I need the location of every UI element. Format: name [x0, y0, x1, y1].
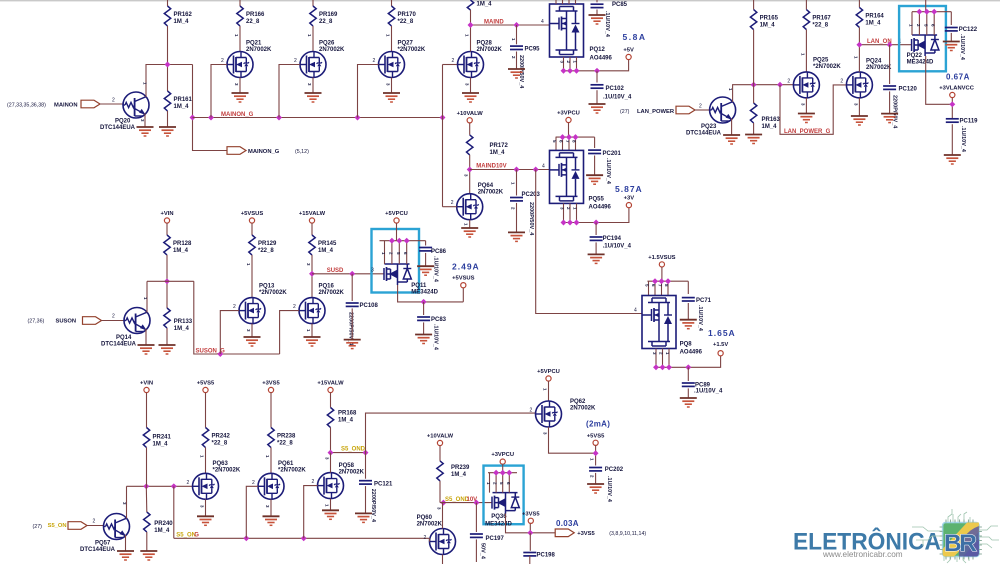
svg-text:PR239: PR239	[451, 465, 470, 471]
wire to MAINON_G port	[193, 65, 228, 151]
ground below PC201	[586, 175, 603, 184]
svg-text:1M_4: 1M_4	[174, 19, 190, 25]
junction PC203 on MAIND10V	[514, 167, 520, 173]
svg-text:22_8: 22_8	[246, 19, 260, 25]
wire +5VPCU to PQ11 top bar	[380, 223, 426, 264]
svg-text:(27): (27)	[620, 109, 630, 115]
wire +15VALW to PR168	[330, 393, 332, 408]
transistor PQ63	[193, 473, 219, 499]
resistor PR162	[164, 6, 170, 26]
svg-text:2200P/50V_4: 2200P/50V_4	[892, 95, 898, 129]
wire PC198 down	[529, 556, 531, 564]
svg-text:SUSON: SUSON	[56, 319, 77, 325]
wire PQ55 source bus to +3V	[564, 208, 629, 223]
junction PC121 on S5_OND	[363, 450, 369, 456]
wire PC86 to ground	[425, 253, 427, 266]
svg-text:PQ57: PQ57	[95, 541, 111, 547]
wire S5_ONG to PQ61 gate	[246, 486, 258, 538]
svg-text:1M_4: 1M_4	[762, 124, 778, 130]
transistor PQ24	[846, 72, 872, 98]
junction	[574, 220, 580, 226]
capacitor PC202 plates	[589, 468, 602, 471]
wire +VIN to PR241	[146, 393, 148, 428]
highlight box around PQ11	[372, 229, 420, 293]
wire bus to PC194	[595, 223, 597, 236]
svg-text:2: 2	[187, 480, 190, 486]
svg-text:2N7002K: 2N7002K	[339, 470, 365, 476]
net LAN_POWER_G	[780, 85, 847, 135]
resistor PR129	[249, 235, 255, 255]
wire PR168 to S5_OND	[330, 428, 332, 453]
output port +3VS5	[555, 529, 574, 537]
resistor PR163	[750, 103, 756, 123]
svg-text:.1U/10V_4: .1U/10V_4	[606, 476, 612, 503]
wire PR240 to ground	[146, 532, 148, 551]
svg-text:ME3424D: ME3424D	[907, 60, 934, 66]
svg-text:1M_4: 1M_4	[318, 248, 334, 254]
wire S5_OND to PQ58 drain	[330, 453, 332, 473]
ground below PC71	[680, 320, 697, 329]
junction PR128/PR133	[164, 278, 170, 284]
ground below PC121	[355, 513, 372, 522]
svg-text:PQ11: PQ11	[411, 283, 427, 289]
wire PQ24 drain to LAN_ON	[858, 45, 860, 72]
transistor PQ14	[124, 308, 150, 334]
highlight box around PQ22	[899, 6, 946, 71]
svg-text:2: 2	[840, 78, 843, 84]
wire PC201 to ground	[594, 156, 596, 176]
svg-text:PC201: PC201	[603, 151, 622, 157]
svg-text:PQ12: PQ12	[590, 47, 606, 53]
ground below PC102	[589, 104, 606, 113]
svg-text:AO4496: AO4496	[589, 205, 612, 211]
wire top bar to PC86	[425, 241, 427, 246]
svg-text:PR242: PR242	[212, 434, 231, 440]
svg-text:*2N7002K: *2N7002K	[259, 290, 287, 296]
svg-text:PR162: PR162	[174, 12, 193, 18]
wire PC197 down	[475, 539, 477, 562]
svg-text:+3VPCU: +3VPCU	[491, 452, 514, 458]
junction	[404, 238, 410, 244]
wire PQ61 source to ground	[270, 499, 272, 516]
junction	[567, 68, 573, 74]
svg-text:2200P/50V_4: 2200P/50V_4	[528, 202, 534, 236]
p-mosfet PQ11 ME3424D	[384, 264, 411, 285]
wire PC71 to ground	[687, 303, 689, 320]
power mosfet PQ12 AO4496	[550, 4, 584, 57]
svg-text:PC108: PC108	[360, 303, 379, 309]
junction	[931, 9, 937, 15]
junction	[567, 220, 573, 226]
junction	[652, 278, 658, 284]
wire gate PQ27	[358, 65, 379, 118]
transistor PQ16	[299, 298, 325, 324]
resistor PR239	[437, 461, 443, 481]
svg-text:MAIND: MAIND	[484, 20, 504, 26]
transistor PQ23	[710, 97, 736, 123]
wire MAINON to PQ20 base	[100, 103, 123, 105]
svg-text:PC83: PC83	[431, 317, 447, 323]
svg-text:PR128: PR128	[173, 241, 192, 247]
svg-text:2N7002K: 2N7002K	[478, 190, 504, 196]
ground below PQ27	[383, 93, 400, 102]
resistor PR170	[388, 6, 394, 26]
svg-text:PC95: PC95	[525, 47, 541, 53]
wire PQ26 source to ground	[312, 78, 314, 94]
junction PQ13 gate on SUSON_G	[217, 351, 223, 357]
svg-text:PR168: PR168	[338, 411, 357, 417]
wire PR163 to ground	[753, 123, 755, 135]
junction PQ26 gate on MAINON_G	[276, 115, 282, 121]
wire PQ16 source to ground	[311, 324, 313, 337]
svg-text:PQ13: PQ13	[259, 284, 275, 290]
svg-text:PQ62: PQ62	[570, 399, 586, 405]
svg-text:2.49A: 2.49A	[452, 262, 480, 272]
ground at PQ23 emitter	[723, 135, 740, 144]
wire PQ11 drain to +5VSUS bus	[398, 285, 464, 302]
net S5_ONG rail	[174, 537, 429, 539]
wire top stub PR165	[753, 0, 755, 10]
svg-text:PC85: PC85	[612, 2, 628, 8]
svg-text:PQ8: PQ8	[680, 342, 693, 348]
wire PR129 to PQ13 drain	[251, 255, 253, 298]
wire top stub PR167	[805, 0, 807, 10]
svg-text:+5VSUS: +5VSUS	[241, 211, 264, 217]
svg-text:ME3424D: ME3424D	[411, 290, 438, 296]
svg-text:+3VPCU: +3VPCU	[557, 111, 580, 117]
pins bottom PQ55	[564, 203, 577, 222]
svg-text:22_8: 22_8	[319, 19, 333, 25]
wire PR161 to ground	[167, 111, 169, 127]
svg-text:+1.5VSUS: +1.5VSUS	[648, 255, 675, 261]
junction PR239/PQ60 drain	[440, 500, 446, 506]
svg-text:AO4496: AO4496	[680, 350, 703, 356]
wire gate PQ26	[279, 65, 300, 118]
ground below PR161	[159, 127, 176, 136]
junction PQ28 drain MAIND	[468, 22, 474, 28]
svg-text:.1U/10V_4: .1U/10V_4	[603, 244, 632, 250]
svg-text:+1.5V: +1.5V	[713, 342, 728, 348]
svg-text:+3VS5: +3VS5	[522, 511, 540, 517]
junction	[924, 9, 930, 15]
wire PQ57 collector up	[126, 486, 128, 518]
transistor PQ26	[300, 52, 326, 78]
wire PQ12 source bus to +5V	[564, 60, 629, 71]
ground below PC108	[344, 340, 361, 349]
net SUSD	[312, 273, 385, 275]
svg-text:PQ16: PQ16	[319, 284, 335, 290]
input port MAINON	[81, 100, 100, 108]
svg-text:1M_4: 1M_4	[153, 442, 169, 448]
svg-text:+15VALW: +15VALW	[317, 381, 344, 387]
capacitor PC122 plates	[945, 28, 958, 31]
svg-text:2: 2	[233, 304, 236, 310]
svg-text:+3VLANVCC: +3VLANVCC	[939, 85, 974, 91]
wire cut resistor to MAIND	[470, 10, 472, 25]
wire PQ14 collector node	[147, 280, 194, 282]
ground below PQ25	[798, 114, 815, 123]
junction	[561, 68, 567, 74]
svg-text:+3V: +3V	[624, 196, 635, 202]
logo ELETRONICA BR	[793, 509, 999, 563]
wire +3VS5 to PR238	[270, 393, 272, 428]
svg-text:PR129: PR129	[258, 241, 277, 247]
transistor PQ21	[227, 52, 253, 78]
junction PR241/PR240	[143, 483, 149, 489]
wire S5_OND to PC121	[365, 453, 367, 479]
svg-text:DTC144EUA: DTC144EUA	[100, 125, 136, 131]
junction PR164/PQ24/LAN_ON	[856, 42, 862, 48]
resistor PR242	[202, 428, 208, 448]
junction PQ8 gate branch	[533, 167, 539, 173]
wire top bar to PC122	[950, 12, 952, 25]
wire SUSD to PC108	[351, 274, 353, 301]
junction MAINON_G rail	[190, 115, 196, 121]
ground below PQ28	[462, 93, 479, 102]
svg-text:+VIN: +VIN	[160, 211, 173, 217]
svg-text:*2N7002K: *2N7002K	[213, 468, 241, 474]
svg-text:PQ28: PQ28	[477, 41, 493, 47]
svg-text:+5V: +5V	[623, 48, 634, 54]
wire PR133 to ground	[166, 328, 168, 345]
svg-text:2: 2	[93, 519, 96, 525]
svg-text:PQ55: PQ55	[589, 197, 605, 203]
wire top stub PR166	[239, 0, 241, 6]
svg-text:S5_OND: S5_OND	[341, 447, 366, 453]
ground below PQ61	[263, 516, 280, 525]
wire PR239 to S5_OND10V	[439, 481, 441, 503]
wire LAN_ON to PC120	[889, 45, 891, 84]
pins bottom PQ8	[656, 349, 669, 368]
svg-text:2N7002K: 2N7002K	[246, 47, 272, 53]
ground below PR133	[159, 345, 176, 354]
wire PQ14 collector up	[146, 281, 148, 312]
svg-text:+5VSUS: +5VSUS	[452, 276, 475, 282]
junction PQ58 gate on S5_ONG	[301, 535, 307, 541]
resistor PR172	[467, 135, 473, 155]
wire PQ62 source to +5VS5	[549, 427, 596, 453]
svg-text:PQ25: PQ25	[813, 58, 829, 64]
svg-text:PR238: PR238	[277, 434, 296, 440]
wire +5VPCU to PQ62 drain	[548, 381, 550, 401]
svg-text:PR165: PR165	[760, 16, 779, 22]
wire S5_ONG to PQ58 gate	[304, 486, 318, 539]
wire PC203 to ground	[516, 203, 518, 233]
wire PR172 to PQ64 drain	[469, 155, 471, 194]
ground below PR163	[745, 135, 762, 144]
wire PC122 to ground	[950, 33, 952, 42]
svg-text:+15VALW: +15VALW	[299, 211, 326, 217]
svg-text:PQ27: PQ27	[398, 41, 414, 47]
svg-text:1M_4: 1M_4	[338, 418, 354, 424]
wire top stub PR170	[391, 0, 393, 6]
transistor PQ20	[123, 92, 149, 118]
svg-text:*22_8: *22_8	[812, 23, 828, 29]
wire PQ28 source to ground	[470, 78, 472, 94]
svg-text:1M_4: 1M_4	[865, 20, 881, 26]
ground below PC203	[508, 232, 525, 241]
ground below PQ21	[232, 93, 249, 102]
junction	[389, 238, 395, 244]
svg-text:1M_4: 1M_4	[760, 23, 776, 29]
capacitor PC121 plates	[359, 481, 372, 484]
junction PC197 on S5_OND10V	[473, 500, 479, 506]
junction PR168/PQ58 drain	[328, 450, 334, 456]
wire PQ13 source to ground	[251, 324, 253, 337]
capacitor PC197 plates	[470, 534, 483, 537]
svg-text:2N7002K: 2N7002K	[417, 522, 443, 528]
svg-text:.1U/10V_4: .1U/10V_4	[605, 158, 611, 185]
wire +5VS5 to PC202	[595, 445, 597, 465]
svg-text:PR145: PR145	[318, 241, 337, 247]
wire PQ58 source to ground	[330, 499, 332, 511]
svg-text:.1U/10V_4: .1U/10V_4	[697, 305, 703, 332]
resistor PR168	[327, 408, 333, 428]
junction	[660, 364, 666, 370]
wire to PR163	[753, 85, 755, 103]
wire PR238 to PQ61 drain	[270, 448, 272, 474]
junction PQ21 gate on MAINON_G	[208, 115, 214, 121]
resistor PR167	[803, 10, 809, 30]
wire PC108 to ground	[351, 308, 353, 339]
svg-text:1M_4: 1M_4	[174, 326, 190, 332]
transistor PQ60	[430, 529, 456, 555]
svg-text:2N7002K: 2N7002K	[319, 47, 345, 53]
net MAINON_G rail	[193, 117, 443, 119]
svg-text:PQ26: PQ26	[319, 41, 335, 47]
wire PQ63 source to ground	[205, 499, 207, 516]
svg-text:PC203: PC203	[522, 192, 541, 198]
svg-text:*22_8: *22_8	[258, 248, 274, 254]
wire +15VALW to PR145	[311, 223, 313, 235]
svg-text:.1U/10V_4: .1U/10V_4	[960, 126, 966, 153]
wire PQ25 source to ground	[805, 98, 807, 114]
svg-text:*2N7002K: *2N7002K	[813, 64, 841, 70]
ground at PQ14 emitter	[138, 345, 155, 354]
svg-text:2: 2	[451, 200, 454, 206]
wire SUSON_G to PQ16 gate	[280, 311, 299, 354]
svg-text:+3VS5: +3VS5	[577, 531, 595, 537]
wire SUSON to PQ14	[102, 320, 125, 322]
svg-text:PQ60: PQ60	[417, 515, 433, 521]
svg-text:.1U/10V_4: .1U/10V_4	[603, 95, 632, 101]
wire PR164 to LAN_ON	[858, 27, 860, 44]
wire MAIND10V to PQ8 gate	[536, 170, 642, 314]
svg-text:PC198: PC198	[537, 552, 556, 558]
ground below PC120	[881, 114, 898, 123]
wire PQ36 drain to +3VS5 line	[506, 514, 556, 533]
wire top stub PR169	[312, 0, 314, 6]
svg-text:+5VS5: +5VS5	[587, 433, 605, 439]
svg-text:*22_8: *22_8	[398, 19, 414, 25]
resistor PR145	[309, 235, 315, 255]
svg-text:PC71: PC71	[696, 298, 712, 304]
svg-text:.1U/10V_4: .1U/10V_4	[959, 34, 965, 61]
ground below PQ63	[197, 516, 214, 525]
svg-text:S5_ON: S5_ON	[176, 533, 196, 539]
svg-text:0.03A: 0.03A	[556, 519, 579, 528]
svg-text:1M_4: 1M_4	[477, 2, 493, 8]
svg-text:1M_4: 1M_4	[451, 472, 467, 478]
svg-text:+3VS5: +3VS5	[262, 381, 280, 387]
input port S5_ON	[68, 522, 87, 530]
transistor PQ27	[379, 52, 405, 78]
wire +VIN to PR128	[166, 223, 168, 235]
junction PC102	[594, 68, 600, 74]
ground below PC122	[943, 42, 960, 51]
wire PR128 to PR133	[166, 255, 168, 308]
wire PR165 down	[753, 30, 755, 85]
svg-text:PQ14: PQ14	[116, 335, 132, 341]
svg-text:1M_4: 1M_4	[154, 528, 170, 534]
transistor PQ28	[458, 52, 484, 78]
svg-text:5.87A: 5.87A	[615, 184, 643, 194]
svg-text:PC197: PC197	[486, 536, 505, 542]
wire PQ23 emitter to ground	[731, 118, 733, 135]
svg-text:2: 2	[293, 304, 296, 310]
svg-text:PC120: PC120	[899, 87, 918, 93]
capacitor PC108 plates	[346, 303, 359, 306]
wire to PC102	[596, 71, 598, 83]
svg-text:(27,36): (27,36)	[28, 319, 45, 325]
pins top PQ12	[556, 0, 576, 4]
wire PC119 to ground	[951, 124, 953, 155]
wire top stub PC85	[596, 0, 598, 2]
highlight box around PQ36	[484, 466, 524, 525]
resistor PR133	[164, 308, 170, 328]
wire node to PR240	[145, 486, 148, 512]
svg-text:+10VALW: +10VALW	[457, 111, 484, 117]
svg-text:2: 2	[699, 104, 702, 110]
svg-text:PC122: PC122	[959, 27, 978, 33]
wire +3VPCU to PQ36 top bar	[488, 464, 517, 492]
junction	[566, 134, 572, 140]
svg-text:AO4496: AO4496	[590, 56, 613, 62]
svg-text:PR169: PR169	[319, 12, 338, 18]
svg-text:2: 2	[252, 480, 255, 486]
resistor PR161	[164, 91, 170, 111]
wire PQ64 source to ground	[469, 220, 471, 228]
junction S5_ONG branch	[171, 483, 177, 489]
wire S5_ON to PQ57	[87, 525, 104, 527]
junction PQ28 gate on MAINON_G	[440, 115, 446, 121]
capacitor PC198 plates	[523, 553, 536, 556]
top border strip	[0, 0, 1000, 1]
ground below PC202	[587, 484, 604, 493]
wire S5_ONG to PQ60 gate	[429, 538, 431, 541]
svg-text:2: 2	[787, 78, 790, 84]
power mosfet PQ8 AO4496	[642, 296, 676, 349]
svg-text:PQ61: PQ61	[278, 461, 294, 467]
svg-text:1M_4: 1M_4	[174, 104, 190, 110]
net LAN_ON	[859, 44, 912, 46]
svg-text:PQ63: PQ63	[213, 461, 229, 467]
wire +3VPCU to PQ55 top bar	[556, 123, 595, 151]
wire PQ23 collector to PQ25 gate	[733, 85, 794, 102]
svg-text:ME3424D: ME3424D	[485, 522, 512, 528]
wire PR167 to PQ25 drain	[805, 30, 807, 72]
resistor PR164	[856, 7, 862, 27]
wire PC202 to ground	[595, 473, 597, 484]
ground below PC95	[508, 69, 525, 78]
svg-text:2: 2	[424, 535, 427, 541]
wire PQ57 emitter to ground	[125, 535, 127, 551]
wire PQ21 source to ground	[239, 78, 241, 94]
wire PQ28 drain to MAIND	[470, 25, 472, 52]
wire PC89 to ground	[687, 388, 689, 398]
junction	[653, 364, 659, 370]
svg-text:4: 4	[542, 164, 545, 170]
